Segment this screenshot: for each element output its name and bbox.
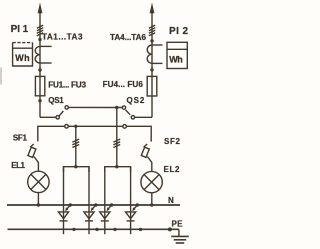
svg-text:PI 2: PI 2	[169, 26, 188, 37]
bus: lower distribution bus	[38, 126, 151, 141]
fuse FU4...FU6	[147, 76, 157, 96]
socket symbol on outgoing line 1	[58, 212, 68, 221]
svg-text:FU4... FU6: FU4... FU6	[103, 80, 144, 89]
svg-text:TA1...TA3: TA1...TA3	[42, 33, 83, 42]
node: junction dot right header	[115, 165, 118, 168]
svg-text:PE: PE	[172, 220, 184, 229]
node: PE junction dot 3	[113, 228, 116, 231]
node: PE bus end dot	[168, 227, 172, 231]
N tap arrow for outgoing line 1	[65, 203, 72, 211]
conductor-count slashes on right riser	[113, 139, 120, 147]
svg-text:EL2: EL2	[164, 165, 181, 174]
node: junction dot left feeder above CT	[38, 38, 41, 41]
outgoing line 2 (leg)	[88, 167, 90, 235]
node: junction dot right feeder above CT	[150, 39, 153, 42]
node: PE junction dot 2	[95, 228, 98, 231]
svg-text:EL1: EL1	[11, 161, 25, 170]
N tap arrow for outgoing line 4	[132, 203, 139, 211]
node: junction dot lower bus left riser	[74, 125, 77, 128]
wire: right feeder vertical line	[151, 7, 153, 117]
N tap arrow for outgoing line 2	[91, 203, 98, 211]
svg-text:QS1: QS1	[48, 96, 64, 105]
node: EL2 to N junction dot	[150, 203, 153, 206]
arrow: right feeder incoming arrow	[150, 3, 155, 14]
outgoing line 4 (leg)	[130, 167, 132, 235]
socket symbol on outgoing line 2	[84, 212, 94, 221]
svg-text:SF2: SF2	[164, 137, 181, 146]
node: EL1 to N junction dot	[37, 203, 40, 206]
switch QS1	[40, 106, 68, 119]
terminal circle on lower bus (right)	[123, 125, 127, 129]
circuit breaker SF2	[141, 144, 152, 162]
outgoing line 3 (leg)	[104, 167, 106, 235]
node: junction dot on tie link (right riser tap)	[115, 106, 118, 109]
conductor-count slashes on left feeder	[37, 25, 43, 36]
svg-text:Wh: Wh	[169, 55, 183, 65]
scan smudge left edge	[0, 68, 2, 85]
node: PE junction dot 4	[139, 228, 142, 231]
header: right socket group	[105, 167, 131, 172]
svg-text:SF1: SF1	[13, 134, 28, 143]
svg-text:FU1... FU3: FU1... FU3	[48, 80, 86, 89]
fuse FU1...FU3	[35, 76, 44, 95]
ground symbol	[171, 229, 189, 243]
bus: PE protective earth bus	[8, 228, 179, 230]
switch QS2	[122, 106, 152, 119]
socket symbol on outgoing line 4	[126, 212, 136, 221]
svg-text:TA4...TA6: TA4...TA6	[110, 33, 146, 42]
socket symbol on outgoing line 3	[100, 212, 110, 221]
svg-text:Wh: Wh	[15, 53, 29, 63]
node: junction dot left header	[74, 165, 77, 168]
wire: right riser to socket group	[116, 108, 118, 167]
node: junction dot right feeder below CT	[150, 68, 153, 71]
outgoing line 1 (leg)	[63, 167, 65, 235]
wire: tie link between QS1 and QS2	[69, 106, 123, 108]
current transformer TA1...TA3	[35, 46, 51, 63]
svg-text:PI 1: PI 1	[11, 24, 29, 35]
lamp EL2	[141, 162, 162, 205]
current transformer TA4...TA6	[147, 45, 162, 63]
wire: left riser to socket group	[75, 126, 77, 166]
N tap arrow for outgoing line 3	[107, 203, 114, 211]
conductor-count slashes on left riser	[72, 139, 79, 147]
conductor-count slashes on right feeder	[149, 25, 155, 36]
node: junction dot left feeder below CT	[38, 68, 41, 71]
bus: N neutral bus	[7, 204, 180, 206]
node: junction dot below left fuse	[38, 99, 41, 102]
svg-text:N: N	[168, 196, 174, 205]
meter PI1 Wh box	[13, 43, 33, 66]
header: left socket group	[64, 167, 90, 172]
lamp EL1	[28, 162, 49, 205]
node: PE junction dot 1	[72, 228, 75, 231]
circuit breaker SF1	[28, 144, 39, 162]
svg-text:QS2: QS2	[127, 96, 145, 105]
wire: left feeder vertical line	[39, 7, 41, 117]
terminal circle on lower bus (left)	[65, 125, 69, 129]
meter PI2 Wh box	[167, 42, 187, 68]
arrow: left feeder incoming arrow	[38, 3, 43, 14]
